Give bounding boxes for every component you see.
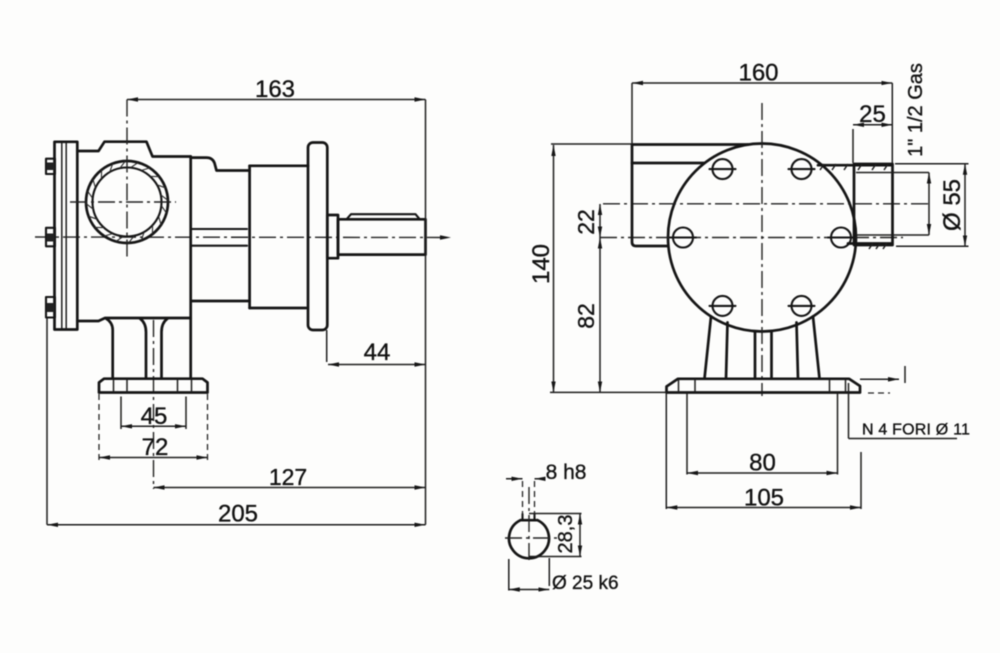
dim 44 xyxy=(328,339,426,366)
svg-text:Ø 55: Ø 55 xyxy=(939,179,966,231)
left cover flange plate xyxy=(55,142,78,330)
base plate xyxy=(667,379,861,393)
shaft xyxy=(338,219,426,254)
dim 82 xyxy=(573,238,600,393)
dim 22 xyxy=(573,204,600,238)
foot right leg outer xyxy=(813,317,820,379)
dim diameter 55 xyxy=(895,164,969,247)
inlet port circle inner (thread) xyxy=(93,168,162,237)
dim 127 xyxy=(154,464,426,490)
svg-text:28,3: 28,3 xyxy=(555,515,577,554)
foot left leg outer xyxy=(705,317,712,379)
svg-text:160: 160 xyxy=(738,60,778,87)
shaft step ring xyxy=(327,215,338,258)
screw 60deg xyxy=(789,159,815,179)
shaft keyway flat xyxy=(347,214,420,219)
right port flange xyxy=(854,164,893,245)
svg-text:25: 25 xyxy=(859,101,886,128)
foot left leg xyxy=(106,319,113,379)
center boss lines xyxy=(755,332,772,379)
dim 140 xyxy=(528,144,632,392)
foot channel left edge xyxy=(140,319,146,379)
pump body outline with top lug xyxy=(77,142,190,379)
svg-text:205: 205 xyxy=(218,501,258,528)
horizontal shaft axis centerline xyxy=(600,237,903,239)
main shaft axis centerline xyxy=(35,235,451,240)
svg-text:1" 1/2 Gas: 1" 1/2 Gas xyxy=(905,63,927,157)
svg-text:82: 82 xyxy=(573,303,599,329)
screw 0deg xyxy=(828,228,854,248)
svg-text:N 4 FORI Ø 11: N 4 FORI Ø 11 xyxy=(862,422,970,439)
flange bolt bottom xyxy=(46,297,55,318)
screw 120deg xyxy=(710,159,736,179)
flange bolt middle xyxy=(46,228,55,247)
svg-text:140: 140 xyxy=(528,244,555,284)
svg-text:163: 163 xyxy=(255,76,295,103)
svg-text:8 h8: 8 h8 xyxy=(546,461,587,484)
thread dim line 1"1/2 Gas xyxy=(928,173,930,236)
dim 45 xyxy=(121,397,186,431)
flange bolt top xyxy=(46,159,55,174)
base top right extension with tick xyxy=(860,366,905,393)
port thread hatching xyxy=(86,161,168,243)
svg-text:80: 80 xyxy=(749,450,776,477)
foot base flange xyxy=(99,379,208,393)
bearing housing section 2 xyxy=(250,166,308,308)
port exit hatch xyxy=(869,243,887,249)
svg-text:127: 127 xyxy=(269,464,307,490)
foot right leg inner xyxy=(797,323,799,379)
disc foot extension line xyxy=(326,330,328,362)
svg-text:44: 44 xyxy=(364,339,391,366)
svg-text:72: 72 xyxy=(142,434,169,461)
port tube bottom line xyxy=(848,242,892,245)
port circle horizontal centerline xyxy=(70,201,176,203)
foot channel right edge xyxy=(162,319,168,379)
dim diameter 25 k6 xyxy=(509,558,619,594)
body left block xyxy=(632,145,748,247)
dim 163 xyxy=(127,76,426,103)
svg-text:45: 45 xyxy=(141,403,168,430)
foot centerline xyxy=(153,320,155,489)
dim 28,3 xyxy=(529,514,582,557)
port axis centerline xyxy=(603,203,932,205)
mounting disc flange xyxy=(308,143,327,331)
dim 205 xyxy=(47,318,426,528)
foot left leg inner xyxy=(726,323,728,379)
base bottom extension to 140 dim xyxy=(550,391,667,393)
dim 80 xyxy=(687,393,838,477)
dim 72 xyxy=(99,394,208,462)
thread bore lines xyxy=(856,173,929,236)
bearing housing section 1 with top tab xyxy=(191,158,250,308)
dim 105 xyxy=(666,393,861,512)
right extension line (163/44/127/205) xyxy=(425,100,427,525)
dim 25 xyxy=(853,101,892,163)
svg-text:Ø 25 k6: Ø 25 k6 xyxy=(552,573,619,594)
port tube top thread line xyxy=(818,164,892,170)
port circle vertical centerline xyxy=(126,100,128,260)
shaft circle with keyway flat xyxy=(509,514,549,558)
screw 300deg xyxy=(789,296,815,316)
detail crosshair xyxy=(505,487,557,561)
inlet port circle outer xyxy=(86,161,168,243)
screw 240deg xyxy=(710,296,736,316)
svg-text:22: 22 xyxy=(573,209,599,235)
svg-text:105: 105 xyxy=(744,485,784,512)
screw 180deg xyxy=(670,228,696,248)
main circle body xyxy=(668,144,856,332)
vertical centerline xyxy=(761,103,763,396)
leader N 4 FORI xyxy=(849,383,971,439)
dim 8 h8 xyxy=(506,461,586,518)
dim 160 xyxy=(632,60,892,164)
